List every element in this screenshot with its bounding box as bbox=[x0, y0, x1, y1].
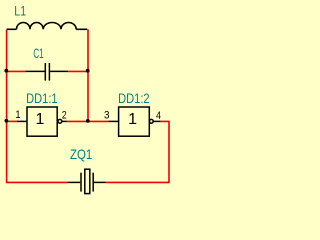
wire: DD1:1 output to DD1:2 input bbox=[67, 120, 109, 122]
crystal ZQ1 right plate bbox=[92, 173, 94, 192]
crystal ZQ1 left lead bbox=[67, 181, 80, 183]
junction dot C1 row left bbox=[4, 69, 8, 73]
wire: DD1:2 output, right rail, bottom rail right segment bbox=[106, 121, 169, 182]
svg-text:C1: C1 bbox=[33, 45, 44, 61]
inverter DD1:2 output lead bbox=[153, 120, 160, 122]
junction dot C1 row right bbox=[86, 69, 90, 73]
svg-text:4: 4 bbox=[156, 110, 161, 122]
crystal ZQ1 left plate bbox=[80, 173, 82, 192]
capacitor C1 bbox=[25, 63, 68, 81]
inverter DD1:1 input lead bbox=[17, 120, 27, 122]
wire: node A vertical (L1/C1 right side down to gate row) bbox=[87, 29, 89, 121]
wire: C1 row left segment bbox=[7, 70, 26, 72]
junction dot node A gate row bbox=[86, 119, 90, 123]
wire: left vertical rail + bottom rail left segment bbox=[7, 30, 67, 183]
inverter DD1:2 output bubble bbox=[149, 119, 153, 123]
wire: C1 row right segment bbox=[68, 70, 88, 72]
svg-text:ZQ1: ZQ1 bbox=[70, 146, 92, 162]
svg-text:DD1:2: DD1:2 bbox=[118, 90, 150, 106]
svg-text:L1: L1 bbox=[14, 3, 26, 19]
inverter DD1:2 input lead bbox=[109, 120, 119, 122]
svg-text:DD1:1: DD1:1 bbox=[26, 90, 58, 106]
svg-text:1: 1 bbox=[36, 111, 45, 128]
wire: DD1:1 input segment bbox=[7, 120, 17, 122]
inductor L1 bbox=[7, 22, 88, 29]
svg-text:1: 1 bbox=[15, 109, 20, 121]
svg-text:1: 1 bbox=[128, 111, 137, 128]
inverter DD1:1 output lead bbox=[62, 120, 67, 122]
junction dot DD1:1 input bbox=[5, 119, 9, 123]
svg-text:3: 3 bbox=[104, 110, 110, 122]
inverter DD1:2 body bbox=[119, 107, 150, 136]
crystal ZQ1 right lead bbox=[94, 181, 106, 183]
inverter DD1:1 output bubble bbox=[58, 119, 62, 123]
inverter DD1:1 body bbox=[27, 107, 57, 136]
crystal ZQ1 body bbox=[85, 169, 90, 193]
svg-text:2: 2 bbox=[62, 110, 67, 122]
